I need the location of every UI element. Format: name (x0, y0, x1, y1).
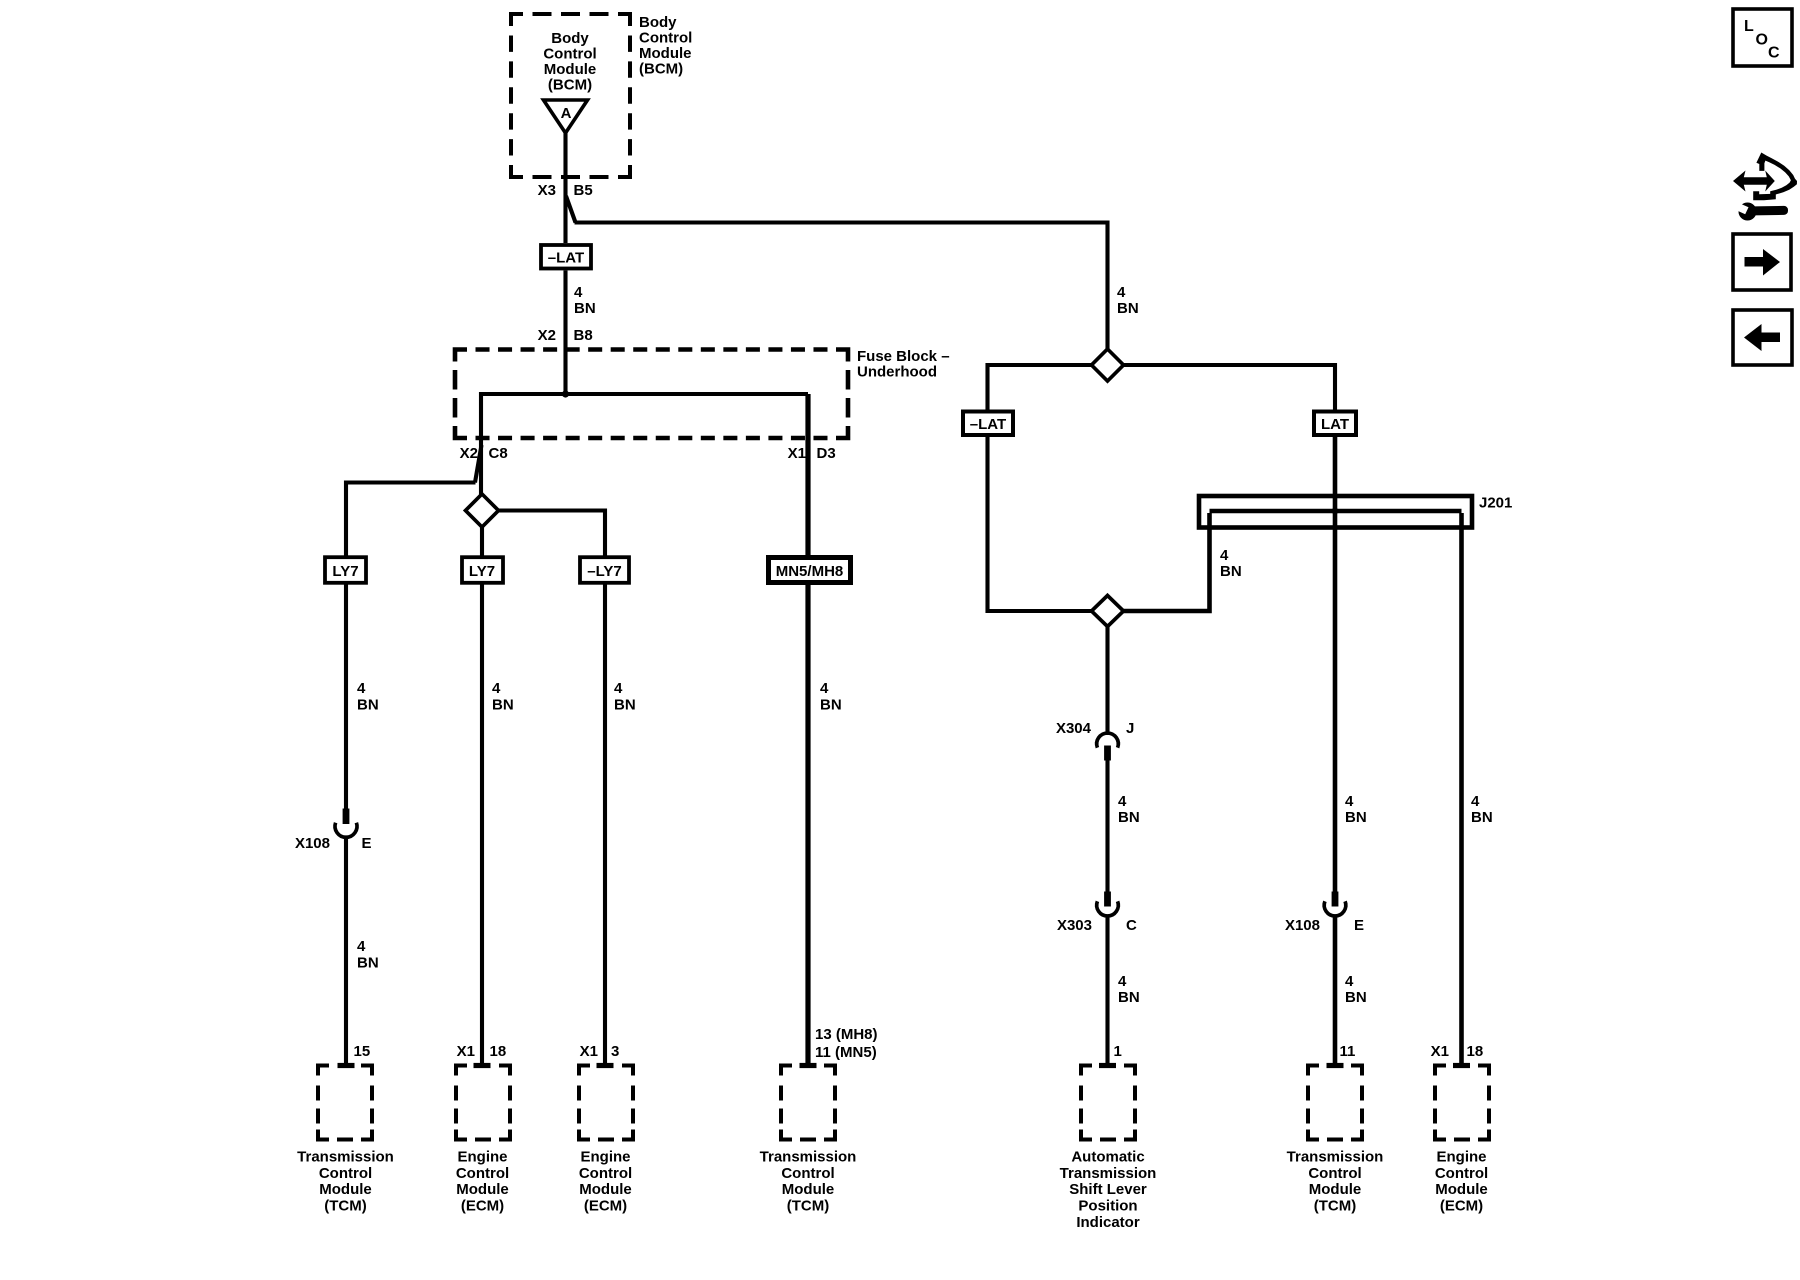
svg-text:BN: BN (1345, 809, 1367, 826)
wire col3 -LY7 down to ECM (603, 584, 607, 1065)
svg-text:Module: Module (782, 1181, 835, 1198)
tools icon outline arrow (1756, 153, 1797, 196)
svg-text:X1: X1 (580, 1043, 598, 1060)
tools icon double arrow (1733, 171, 1775, 192)
tools icon wrench (1733, 202, 1788, 221)
svg-text:Engine: Engine (457, 1149, 507, 1166)
wire label 4 BN col1 (357, 680, 379, 714)
wire label 4 BN (right TCM lower) (1345, 973, 1367, 1006)
svg-text:LY7: LY7 (332, 563, 358, 580)
svg-text:BN: BN (1117, 300, 1139, 317)
BCM output triangle A (544, 100, 588, 133)
svg-text:X3: X3 (538, 182, 556, 199)
LOC icon box (1733, 9, 1792, 66)
svg-text:4: 4 (357, 680, 366, 697)
wire X303 down to indicator (1105, 916, 1109, 1065)
svg-text:Engine: Engine (580, 1149, 630, 1166)
svg-text:Body: Body (639, 14, 677, 31)
svg-text:B8: B8 (574, 327, 593, 344)
svg-text:Indicator: Indicator (1076, 1214, 1140, 1231)
svg-text:Body: Body (551, 30, 589, 47)
svg-text:X2: X2 (460, 445, 478, 462)
wire label 4 BN col3 (614, 680, 636, 714)
wire X108 down to TCM col1 (344, 838, 348, 1066)
wire label 4 BN col4 (820, 680, 842, 714)
svg-text:(BCM): (BCM) (548, 77, 592, 94)
forward arrow icon box (1733, 234, 1791, 290)
svg-text:Underhood: Underhood (857, 364, 937, 381)
svg-text:Control: Control (1435, 1165, 1488, 1182)
svg-text:Module: Module (456, 1181, 509, 1198)
svg-text:Transmission: Transmission (760, 1149, 857, 1166)
svg-text:Module: Module (1309, 1181, 1362, 1198)
svg-text:X2: X2 (538, 327, 556, 344)
-LAT box right (963, 412, 1013, 436)
svg-text:O: O (1756, 32, 1768, 49)
svg-text:(BCM): (BCM) (639, 61, 683, 78)
svg-text:4: 4 (614, 680, 623, 697)
wire branch diagonal at B5 (566, 196, 576, 223)
svg-text:4: 4 (357, 938, 366, 955)
wire label 4 BN (X303 down) (1118, 973, 1140, 1006)
pin labels X1 18 right ECM (1431, 1043, 1484, 1060)
wire J201 left leg down to bottom diamond (thick) (1124, 513, 1210, 611)
wire X304 to X303 (1105, 760, 1109, 892)
svg-text:Control: Control (1308, 1165, 1361, 1182)
pin labels X1 3 col3 (580, 1043, 620, 1060)
svg-text:BN: BN (1471, 809, 1493, 826)
svg-text:15: 15 (354, 1043, 371, 1060)
LAT box (1314, 412, 1356, 436)
ECM dashed box col3 (579, 1063, 633, 1215)
pin labels 13 (MH8) 11 (MN5) col4 (815, 1026, 878, 1061)
svg-text:Shift Lever: Shift Lever (1069, 1181, 1147, 1198)
svg-text:Module: Module (319, 1181, 372, 1198)
svg-text:BN: BN (614, 697, 636, 714)
wire LAT down through J201 to TCM (thick) (1333, 437, 1338, 892)
svg-text:BN: BN (1118, 809, 1140, 826)
svg-text:Position: Position (1078, 1198, 1137, 1215)
svg-text:L: L (1744, 18, 1754, 35)
svg-text:4: 4 (1471, 793, 1480, 810)
svg-text:J: J (1126, 720, 1134, 737)
svg-text:Control: Control (456, 1165, 509, 1182)
wire col2 LY7 down to ECM (480, 584, 484, 1065)
wire -LAT to fuse block (563, 271, 567, 396)
svg-text:18: 18 (1467, 1043, 1484, 1060)
wire horizontal to column 1 (346, 483, 476, 558)
TCM dashed box right (1287, 1063, 1384, 1215)
svg-text:Module: Module (639, 45, 692, 62)
svg-text:(TCM): (TCM) (787, 1198, 829, 1215)
svg-text:Control: Control (319, 1165, 372, 1182)
svg-text:4: 4 (1118, 973, 1127, 990)
-LY7 box col3 (580, 557, 629, 583)
svg-text:BN: BN (574, 300, 596, 317)
svg-text:Engine: Engine (1436, 1149, 1486, 1166)
connector X304 J (1056, 720, 1134, 761)
Automatic Transmission Shift Lever Position Indicator dashed box (1060, 1063, 1157, 1231)
svg-text:4: 4 (574, 284, 583, 301)
svg-text:C8: C8 (489, 445, 508, 462)
svg-text:D3: D3 (817, 445, 836, 462)
connector X303 C (1057, 892, 1137, 935)
Fuse Block - Underhood dashed box (455, 348, 950, 438)
svg-text:BN: BN (1118, 989, 1140, 1006)
wire label 4 BN col1 lower (357, 938, 379, 972)
svg-text:BN: BN (1220, 563, 1242, 580)
LY7 box col2 (462, 557, 503, 583)
splice diamond right upper (1092, 349, 1124, 381)
svg-text:Transmission: Transmission (1060, 1165, 1157, 1182)
svg-text:B5: B5 (574, 182, 593, 199)
svg-text:E: E (362, 835, 372, 852)
svg-text:(ECM): (ECM) (1440, 1198, 1483, 1215)
svg-text:X304: X304 (1056, 720, 1092, 737)
svg-text:Transmission: Transmission (297, 1149, 394, 1166)
MN5/MH8 box col4 (769, 558, 851, 583)
svg-text:4: 4 (1220, 547, 1229, 564)
wire diamond to -LAT right (988, 365, 1092, 410)
svg-text:BN: BN (357, 697, 379, 714)
J201 splice pack outer (1199, 496, 1472, 528)
wire diamond down to X304 (1105, 627, 1109, 736)
junction dot on J201 (1332, 508, 1339, 515)
wire label 4 BN (right top) (1117, 284, 1139, 317)
wire label 4 BN (BCM to fuse) (574, 284, 596, 317)
svg-text:BN: BN (492, 697, 514, 714)
svg-text:E: E (1354, 917, 1364, 934)
svg-text:X1: X1 (457, 1043, 475, 1060)
svg-text:Module: Module (544, 61, 597, 78)
LY7 box col1 (325, 557, 366, 583)
svg-text:18: 18 (490, 1043, 507, 1060)
svg-text:BN: BN (357, 955, 379, 972)
J201 inner bar (1210, 509, 1462, 514)
svg-text:LY7: LY7 (469, 563, 495, 580)
svg-text:11: 11 (1340, 1043, 1356, 1060)
svg-text:3: 3 (611, 1043, 619, 1060)
svg-text:MN5/MH8: MN5/MH8 (776, 563, 844, 580)
svg-text:Control: Control (579, 1165, 632, 1182)
splice diamond right lower (1092, 596, 1124, 627)
junction dot inside fuse block (562, 390, 569, 397)
svg-text:Module: Module (1435, 1181, 1488, 1198)
svg-text:4: 4 (1345, 973, 1354, 990)
svg-text:4: 4 (1118, 793, 1127, 810)
svg-text:4: 4 (1117, 284, 1126, 301)
svg-text:Automatic: Automatic (1071, 1149, 1144, 1166)
TCM dashed box col4 (760, 1063, 857, 1215)
wire diamond right to col3 (499, 511, 606, 558)
pin labels X2 B8 (538, 327, 593, 344)
BCM dashed box (511, 14, 630, 177)
wire label 4 BN (X304-X303) (1118, 793, 1140, 826)
svg-text:(TCM): (TCM) (1314, 1198, 1356, 1215)
svg-text:Control: Control (781, 1165, 834, 1182)
svg-text:–LAT: –LAT (970, 416, 1006, 433)
svg-text:Module: Module (579, 1181, 632, 1198)
wire BCM A to -LAT (563, 131, 567, 243)
TCM dashed box col1 (297, 1063, 394, 1215)
svg-text:Control: Control (639, 30, 692, 47)
svg-text:1: 1 (1114, 1043, 1122, 1060)
wire top horizontal to right side (575, 223, 1108, 351)
svg-text:Control: Control (543, 46, 596, 63)
wire diamond to LAT (1124, 365, 1336, 410)
svg-text:A: A (561, 105, 572, 122)
svg-text:–LY7: –LY7 (587, 563, 621, 580)
svg-text:LAT: LAT (1321, 416, 1349, 433)
svg-text:C: C (1126, 917, 1137, 934)
wire col4 MN5/MH8 down to TCM (thick) (805, 585, 810, 1065)
BCM label (right of box) (639, 14, 692, 78)
wire label 4 BN (right TCM upper) (1345, 793, 1367, 826)
wire col1 LY7 down to X108 (344, 584, 348, 810)
pin labels X1 D3 (788, 445, 836, 462)
svg-text:(ECM): (ECM) (461, 1198, 504, 1215)
svg-text:Fuse Block –: Fuse Block – (857, 348, 950, 365)
svg-text:–LAT: –LAT (548, 250, 584, 267)
wire label 4 BN (J201 left leg) (1220, 547, 1242, 580)
ECM dashed box col2 (456, 1063, 510, 1215)
svg-text:4: 4 (492, 680, 501, 697)
connector X108 E col1 (295, 809, 372, 853)
wire horizontal inside fuse block (481, 394, 808, 495)
pin labels X1 18 col2 (457, 1043, 507, 1060)
wire fuse right leg X1 D3 (thick) (805, 394, 810, 555)
tools icon z-bar (1753, 191, 1776, 200)
svg-text:X303: X303 (1057, 917, 1092, 934)
svg-text:(TCM): (TCM) (324, 1198, 366, 1215)
wire label 4 BN col2 (492, 680, 514, 714)
svg-text:J201: J201 (1479, 495, 1512, 512)
svg-text:X108: X108 (295, 835, 330, 852)
svg-text:BN: BN (1345, 989, 1367, 1006)
svg-text:(ECM): (ECM) (584, 1198, 627, 1215)
back arrow icon box (1733, 310, 1792, 365)
svg-text:X1: X1 (788, 445, 806, 462)
pin labels X3 B5 (538, 182, 593, 199)
ECM dashed box right (1435, 1063, 1489, 1215)
svg-text:X108: X108 (1285, 917, 1320, 934)
svg-text:X1: X1 (1431, 1043, 1449, 1060)
wire X108 down to TCM right (1333, 916, 1338, 1065)
wire diamond to col2 LY7 (480, 527, 484, 557)
svg-text:11 (MN5): 11 (MN5) (815, 1044, 877, 1061)
fuse -LAT box (541, 245, 591, 269)
svg-text:4: 4 (1345, 793, 1354, 810)
pin labels X2 C8 (460, 445, 508, 462)
connector X108 E right (1285, 892, 1364, 935)
wire branch diagonal at C8 (475, 445, 482, 483)
wire -LAT down and to bottom diamond (988, 437, 1092, 611)
svg-text:Transmission: Transmission (1287, 1149, 1384, 1166)
svg-text:BN: BN (820, 697, 842, 714)
wire label 4 BN (right ECM) (1471, 793, 1493, 826)
svg-text:4: 4 (820, 680, 829, 697)
svg-text:C: C (1768, 45, 1780, 62)
wire J201 right leg down to ECM (thick) (1459, 513, 1464, 1065)
svg-text:13 (MH8): 13 (MH8) (815, 1026, 878, 1043)
splice diamond (left) (466, 494, 499, 527)
